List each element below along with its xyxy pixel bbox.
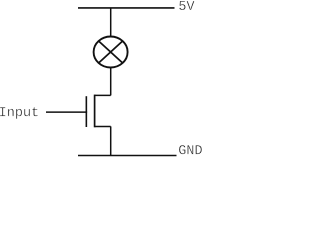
lamp L1 circle [94,37,128,68]
transistor Q1 source lead [95,125,111,127]
wire: lamp bottom to transistor drain [110,67,112,95]
transistor Q1 channel bar [94,95,96,128]
net label Input [0,107,38,119]
wire: source to GND rail [110,126,112,155]
gate wire from Input [46,111,87,113]
net label GND [179,145,202,154]
lamp L1 cross stroke 2 [99,41,123,63]
wire: 5V rail to lamp top [110,8,112,37]
transistor Q1 gate bar [85,96,87,127]
5V rail (top supply wire) [78,7,175,9]
net label 5V [179,1,194,10]
transistor Q1 drain lead [95,94,111,96]
lamp L1 cross stroke 1 [99,41,123,63]
GND rail (bottom wire) [78,155,177,157]
